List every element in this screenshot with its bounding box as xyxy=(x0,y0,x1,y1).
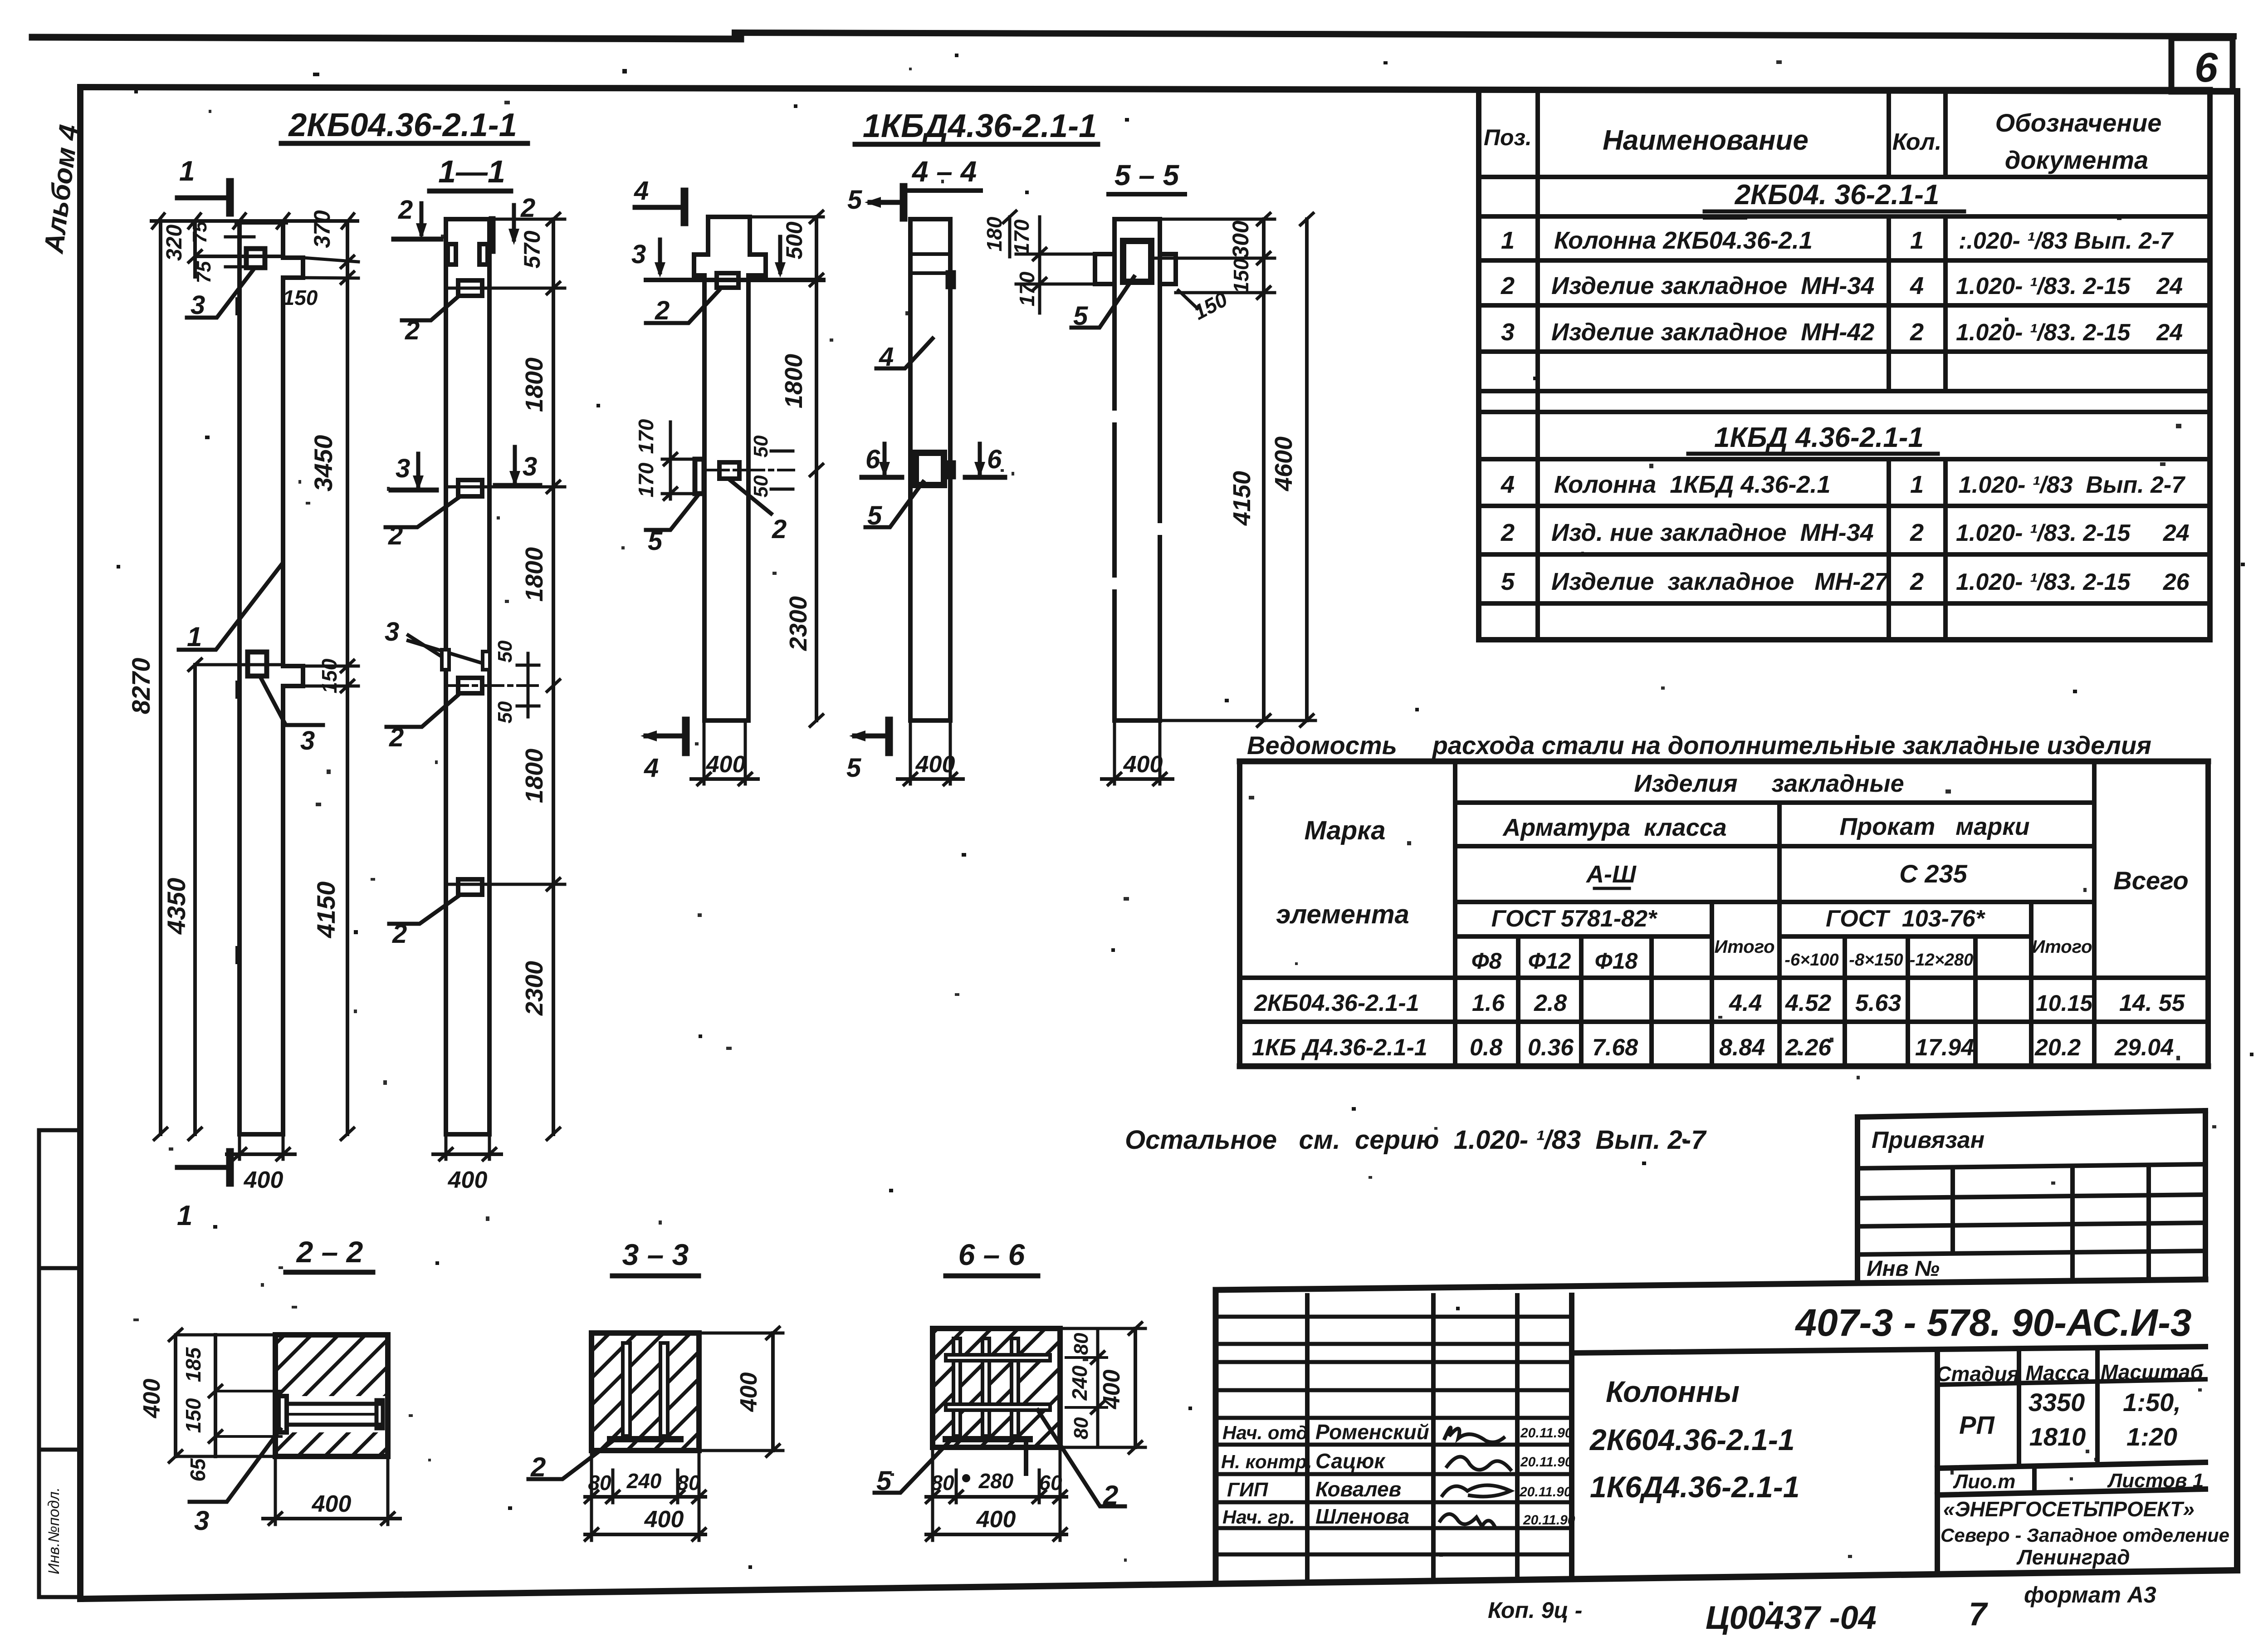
svg-text:Марка: Марка xyxy=(1304,816,1385,845)
small side plate right (mid, column 2) xyxy=(483,652,490,670)
svg-text:2: 2 xyxy=(389,723,404,752)
svg-text:-12×280: -12×280 xyxy=(1910,951,1974,970)
svg-text:ГИП: ГИП xyxy=(1227,1479,1269,1501)
svg-text:Кол.: Кол. xyxy=(1892,129,1942,155)
column 1 elevation body (Колонна 2КБ04.36-2.1) xyxy=(237,222,303,1134)
svg-text:Изделие закладное МН-42: Изделие закладное МН-42 xyxy=(1551,319,1874,346)
left binding margin boxes xyxy=(39,1130,80,1597)
svg-text:2: 2 xyxy=(1910,319,1924,346)
title block signature rows xyxy=(1216,1317,1572,1554)
right dimension line 370/150/3450/150/4150 of column 1 xyxy=(283,210,358,1140)
svg-text:Коп. 9ц -: Коп. 9ц - xyxy=(1488,1598,1582,1623)
svg-text:1800: 1800 xyxy=(521,749,548,803)
svg-text:Итого: Итого xyxy=(2032,937,2092,957)
svg-text::.020- ¹/83 Вып. 2-7: :.020- ¹/83 Вып. 2-7 xyxy=(1959,228,2174,254)
svg-text:5.63: 5.63 xyxy=(1855,990,1901,1016)
svg-text:14. 55: 14. 55 xyxy=(2119,990,2185,1016)
svg-text:1КБ Д4.36-2.1-1: 1КБ Д4.36-2.1-1 xyxy=(1252,1034,1427,1061)
column 4 section 4-4 body xyxy=(910,219,950,720)
svg-text:Ф8: Ф8 xyxy=(1471,948,1502,974)
page top rule left segment xyxy=(32,37,741,39)
svg-text:Нач. гр.: Нач. гр. xyxy=(1222,1506,1295,1528)
bottom extension lines column 5 xyxy=(1160,719,1315,722)
svg-text:С 235: С 235 xyxy=(1899,859,1967,888)
svg-text:180: 180 xyxy=(982,216,1006,251)
dimensions 180/170/170 left of column 5 head xyxy=(982,211,1095,313)
leader and label 2 (plate 2 of column 2) xyxy=(386,497,459,550)
svg-text:20.11.90: 20.11.90 xyxy=(1520,1426,1573,1441)
leader and label 3 (mid plate of column 1) xyxy=(261,678,323,755)
svg-text:4: 4 xyxy=(1910,272,1924,299)
components table top-right xyxy=(1479,90,2210,640)
svg-text:17.94: 17.94 xyxy=(1915,1034,1974,1061)
svg-text:-6×100: -6×100 xyxy=(1784,951,1838,970)
top side plate left (column 2) xyxy=(448,244,456,265)
svg-text:370: 370 xyxy=(309,210,335,248)
signature row Нач.гр Шленова xyxy=(1222,1505,1575,1528)
svg-text:3 – 3: 3 – 3 xyxy=(622,1238,689,1271)
components table row 1 xyxy=(1501,227,2174,254)
dimension line 570/1800/1800/1800/2300 (column 2) xyxy=(489,213,565,1140)
section 2-2 square with hatch xyxy=(275,1335,388,1456)
svg-text:Прокат марки: Прокат марки xyxy=(1839,813,2029,840)
svg-text:4150: 4150 xyxy=(312,882,340,939)
svg-text:2: 2 xyxy=(1501,272,1515,299)
svg-text:150: 150 xyxy=(181,1398,205,1433)
svg-text:400: 400 xyxy=(736,1372,762,1412)
svg-text:5: 5 xyxy=(1073,301,1088,331)
svg-text:2: 2 xyxy=(405,316,420,345)
svg-text:2300: 2300 xyxy=(521,961,548,1016)
dimension 320 with 75 75 at top of column 1 xyxy=(162,221,283,283)
title 2КБ04.36-2.1-1 xyxy=(281,107,528,143)
title 1КБД4.36-2.1-1 xyxy=(855,108,1098,144)
svg-text:150: 150 xyxy=(283,286,318,309)
svg-text:2КБ04.36-2.1-1: 2КБ04.36-2.1-1 xyxy=(288,107,517,143)
svg-text:Масса: Масса xyxy=(2025,1361,2089,1385)
svg-text:Листов 1: Листов 1 xyxy=(2107,1470,2204,1492)
bottom dimension 400 of column 4 xyxy=(898,720,963,785)
bottom dimension 400 of section 2-2 xyxy=(263,1456,400,1524)
svg-text:50: 50 xyxy=(494,701,516,723)
dimension 50/50 at mid plate of column 3 xyxy=(750,435,793,497)
svg-text:Колонна 1КБД 4.36-2.1: Колонна 1КБД 4.36-2.1 xyxy=(1554,471,1831,498)
svg-text:400: 400 xyxy=(312,1491,352,1517)
svg-text:29.04: 29.04 xyxy=(2114,1034,2174,1061)
vedomost table texts xyxy=(1276,770,2189,974)
svg-text:2 – 2: 2 – 2 xyxy=(296,1235,363,1269)
small plate on right edge top of column 4 xyxy=(948,272,954,287)
svg-text:элемента: элемента xyxy=(1276,900,1409,929)
section cut mark 1 (bottom of column 1) xyxy=(177,1152,230,1231)
small weld plate on left edge of column 1 (upper) xyxy=(235,297,241,315)
svg-text:5: 5 xyxy=(867,501,882,530)
svg-text:1: 1 xyxy=(1910,227,1924,254)
svg-text:50: 50 xyxy=(494,640,516,662)
section cut mark 2 (top left of column 2) xyxy=(394,195,441,240)
svg-text:170: 170 xyxy=(1010,219,1033,254)
svg-text:3350: 3350 xyxy=(2028,1388,2085,1416)
embedded plate item 2 on head of column 3 xyxy=(717,273,738,288)
dimension 170/170 (left of column 3) xyxy=(634,419,695,500)
svg-text:407-3 - 578. 90-АС.И-3: 407-3 - 578. 90-АС.И-3 xyxy=(1794,1301,2191,1344)
svg-text:Ведомость расхода стали: Ведомость расхода стали на дополнительны… xyxy=(1247,731,2151,760)
column 5 section 5-5 body with break lines xyxy=(1114,219,1160,720)
svg-text:80: 80 xyxy=(1070,1333,1092,1355)
svg-text:формат А3: формат А3 xyxy=(2024,1582,2156,1608)
svg-text:400: 400 xyxy=(139,1379,165,1419)
small weld plate on left edge of column 1 (middle) xyxy=(235,681,241,699)
top dimension line of column 1 xyxy=(152,214,357,228)
svg-text:50: 50 xyxy=(750,435,772,457)
svg-text:Итого: Итого xyxy=(1714,937,1774,957)
svg-text:1810: 1810 xyxy=(2029,1422,2086,1451)
svg-text:2: 2 xyxy=(392,919,407,949)
svg-text:400: 400 xyxy=(1099,1370,1125,1410)
left dimension 400 of section 2-2 xyxy=(139,1329,275,1462)
svg-text:1: 1 xyxy=(177,1200,192,1231)
dimension line 1800/2300 (column 3) xyxy=(780,211,823,726)
svg-text:1К6Д4.36-2.1-1: 1К6Д4.36-2.1-1 xyxy=(1590,1470,1800,1504)
dimension 8270 line (column 1 overall) xyxy=(127,221,167,1140)
item 5 plate square mid of column 4 xyxy=(916,453,944,485)
privyazan stamp box xyxy=(1857,1111,2205,1283)
svg-text:185: 185 xyxy=(181,1347,205,1382)
bottom dimension 400 of column 3 xyxy=(691,720,758,785)
svg-text:1.020- ¹/83 Вып. 2-7: 1.020- ¹/83 Вып. 2-7 xyxy=(1959,472,2185,498)
embedded plate MH-34 item 2 no.3 (mid axis) on column 2 xyxy=(458,678,482,693)
svg-text:Н. контр.: Н. контр. xyxy=(1221,1451,1312,1472)
item 5 plate square in head of column 5 xyxy=(1123,241,1151,282)
svg-text:4: 4 xyxy=(644,753,659,783)
section cut mark 3 (left of column 3 head) xyxy=(631,240,665,278)
dimension 150 diagonal note right of column 5 head xyxy=(1178,287,1232,324)
section cut mark 6 (left of column 4) xyxy=(862,444,902,477)
svg-text:2: 2 xyxy=(388,521,403,550)
svg-text:400: 400 xyxy=(644,1506,684,1533)
column 3 elevation body (Колонна 1КБД4.36-2.1) with head xyxy=(646,217,823,720)
bottom dimension 400 of column 1 xyxy=(227,1134,295,1193)
svg-text:Ковалев: Ковалев xyxy=(1315,1477,1401,1501)
signature row Н.контр Сацюк xyxy=(1221,1449,1573,1473)
svg-text:0.8: 0.8 xyxy=(1470,1034,1502,1061)
svg-text:Наименование: Наименование xyxy=(1603,125,1809,156)
svg-text:2: 2 xyxy=(1501,519,1515,546)
small side plate left (mid, column 2) xyxy=(442,650,449,670)
svg-text:Масштаб: Масштаб xyxy=(2101,1360,2204,1384)
svg-text:1: 1 xyxy=(179,156,195,187)
title 5-5 xyxy=(1109,159,1185,194)
embedded plate item 2 mid of column 3 xyxy=(719,462,739,479)
extension line plate4 to dim line xyxy=(447,883,565,886)
svg-text:7.68: 7.68 xyxy=(1592,1034,1638,1061)
svg-text:Ф12: Ф12 xyxy=(1528,948,1571,974)
section cut mark 4 (bottom of column 3) xyxy=(640,720,686,783)
svg-text:Колонны: Колонны xyxy=(1606,1375,1740,1408)
signature row ГИП Ковалев xyxy=(1227,1477,1572,1501)
svg-text:1.6: 1.6 xyxy=(1472,990,1505,1016)
vedomost data row 1 xyxy=(1254,990,2185,1016)
svg-text:1.020- ¹/83. 2-15 24: 1.020- ¹/83. 2-15 24 xyxy=(1956,520,2190,546)
svg-text:1800: 1800 xyxy=(521,547,548,602)
svg-text:5: 5 xyxy=(876,1465,892,1496)
svg-text:Ленинград: Ленинград xyxy=(2016,1545,2130,1569)
leader and label 3 (section 2-2 plate) xyxy=(190,1429,280,1536)
svg-text:170: 170 xyxy=(634,419,658,454)
svg-text:Поз.: Поз. xyxy=(1484,125,1532,150)
svg-text:1:50,: 1:50, xyxy=(2123,1388,2181,1416)
svg-text:1: 1 xyxy=(187,622,202,652)
column 5 head right arm xyxy=(1160,254,1176,284)
svg-text:8270: 8270 xyxy=(127,658,155,715)
svg-text:Обозначение: Обозначение xyxy=(1995,108,2162,137)
svg-text:80: 80 xyxy=(1070,1417,1092,1439)
leader and label 5 (left plate of column 3) xyxy=(646,495,699,556)
svg-text:0.36: 0.36 xyxy=(1528,1034,1574,1061)
svg-text:1: 1 xyxy=(1501,227,1515,254)
svg-text:2КБ04. 36-2.1-1: 2КБ04. 36-2.1-1 xyxy=(1735,179,1940,211)
svg-text:Арматура класса: Арматура класса xyxy=(1502,814,1726,841)
svg-text:5: 5 xyxy=(1501,568,1515,595)
components table header texts xyxy=(1484,108,2161,174)
svg-text:400: 400 xyxy=(448,1167,488,1193)
svg-text:3: 3 xyxy=(194,1505,209,1536)
svg-text:1КБД 4.36-2.1-1: 1КБД 4.36-2.1-1 xyxy=(1714,422,1924,453)
svg-text:РП: РП xyxy=(1959,1411,1995,1439)
section cut mark 3 (right of column 3 head) xyxy=(775,237,786,278)
small weld plate on left edge of column 1 (lower) xyxy=(235,946,241,964)
anchor bars in section 3-3 xyxy=(610,1343,680,1439)
svg-text:Колонна 2КБ04.36-2.1: Колонна 2КБ04.36-2.1 xyxy=(1554,227,1813,254)
svg-text:500: 500 xyxy=(782,221,807,260)
svg-text:ГОСТ 5781-82*: ГОСТ 5781-82* xyxy=(1491,906,1658,932)
signature row Нач.отд Роменский xyxy=(1222,1420,1573,1444)
anchor bars grid in section 6-6 xyxy=(946,1338,1050,1474)
svg-text:1.020- ¹/83. 2-15 24: 1.020- ¹/83. 2-15 24 xyxy=(1956,273,2183,299)
embedded plate MH-34 item 2 no.4 on column 2 xyxy=(458,879,482,895)
svg-text:Изделие закладное МН-27: Изделие закладное МН-27 xyxy=(1551,568,1889,595)
svg-text:4150: 4150 xyxy=(1228,471,1256,526)
components table row 6 xyxy=(1501,568,2190,595)
stage РП mass 3350/1810 scale 1:50 1:20 xyxy=(1959,1388,2181,1451)
components table subtitle 2КБ04.36-2.1-1 xyxy=(1705,179,1964,218)
svg-text:1.020- ¹/83. 2-15 26: 1.020- ¹/83. 2-15 26 xyxy=(1956,569,2190,595)
section cut mark 3 (left, at plate 2 level) xyxy=(391,454,436,491)
svg-text:3: 3 xyxy=(191,290,205,320)
svg-text:-8×150: -8×150 xyxy=(1849,951,1903,970)
svg-text:2: 2 xyxy=(1103,1480,1118,1510)
leader and label 2 (plate 4 of column 2) xyxy=(389,896,459,949)
svg-text:150: 150 xyxy=(318,658,341,693)
leader and label 5 (head plate of column 5) xyxy=(1071,277,1134,331)
svg-text:20.11.90: 20.11.90 xyxy=(1519,1485,1572,1500)
svg-text:Роменский: Роменский xyxy=(1315,1420,1429,1444)
extension line plate2 to dim line xyxy=(447,485,565,489)
privyazan texts xyxy=(1867,1127,1984,1281)
svg-text:2: 2 xyxy=(1910,519,1924,546)
leader and label 5 (section 6-6 plate) xyxy=(875,1442,949,1496)
bottom dimension 400 of column 2 xyxy=(433,1134,501,1193)
column 2 section 1-1 body xyxy=(446,219,489,1134)
svg-text:5: 5 xyxy=(847,185,862,215)
embedded plate MH-34 item 2 no.1 on column 2 xyxy=(458,280,482,296)
svg-text:1:20: 1:20 xyxy=(2126,1422,2177,1451)
leader and label 5 (mid square of column 4) xyxy=(865,482,923,530)
section cut mark 6 (right of column 4) xyxy=(965,444,1005,477)
page top rule right segment xyxy=(735,33,2234,36)
leader and label 2 (section 6-6 bars) xyxy=(1038,1410,1125,1510)
dimension 4350 line (column 1 lower part) xyxy=(162,659,281,1140)
dimension line 300/150/4150 (column 5) xyxy=(1151,213,1275,726)
sheet number box top-right xyxy=(2171,38,2233,92)
svg-text:2300: 2300 xyxy=(785,596,812,651)
dash-dot axis through mid plate of column 3 xyxy=(708,469,794,471)
svg-text:6: 6 xyxy=(865,445,880,474)
svg-text:20.11.90: 20.11.90 xyxy=(1520,1455,1573,1470)
svg-text:Ц00437 -04: Ц00437 -04 xyxy=(1706,1600,1877,1635)
section cut mark 1 (top of column 1) xyxy=(177,156,230,213)
title 6-6 xyxy=(946,1238,1038,1276)
svg-text:6: 6 xyxy=(2195,44,2218,91)
svg-text:3: 3 xyxy=(300,726,315,755)
column 5 head left arm xyxy=(1095,254,1114,284)
object name cell Колонны xyxy=(1589,1375,1800,1504)
components table row 4 xyxy=(1501,471,2185,498)
svg-text:320: 320 xyxy=(162,225,186,261)
svg-text:Шленова: Шленова xyxy=(1315,1505,1409,1528)
svg-text:4350: 4350 xyxy=(162,878,191,935)
svg-text:1: 1 xyxy=(1910,471,1924,498)
svg-text:4: 4 xyxy=(1501,471,1515,498)
svg-text:1.020- ¹/83. 2-15 24: 1.020- ¹/83. 2-15 24 xyxy=(1956,319,2183,346)
leader and label 3 (top plate of column 1) xyxy=(187,270,253,320)
svg-text:2.8: 2.8 xyxy=(1534,990,1567,1016)
sheet row Лист Листов xyxy=(1953,1470,2204,1493)
organization ЭНЕРГОСЕТЬПРОЕКТ xyxy=(1941,1497,2229,1569)
components table subtitle 1КБД4.36-2.1-1 xyxy=(1688,422,1938,454)
svg-text:2: 2 xyxy=(655,296,670,325)
svg-text:75: 75 xyxy=(189,221,211,243)
svg-text:75: 75 xyxy=(193,261,215,283)
svg-text:150: 150 xyxy=(1229,258,1253,293)
svg-text:5: 5 xyxy=(846,753,861,783)
title 3-3 xyxy=(612,1238,699,1276)
svg-text:А-Ш: А-Ш xyxy=(1585,861,1637,888)
leader and label 2 (plate 1 of column 2) xyxy=(402,296,459,345)
svg-text:4: 4 xyxy=(879,342,894,372)
bottom dimensions 80/240/80 and 400 of section 3-3 xyxy=(585,1451,705,1540)
dash-dot axis through mid plate xyxy=(447,684,538,687)
svg-text:4: 4 xyxy=(634,176,649,206)
svg-text:300: 300 xyxy=(1228,221,1253,259)
bottom dimension 400 of column 5 xyxy=(1102,720,1173,785)
svg-text:2: 2 xyxy=(530,1452,546,1482)
svg-text:Инв №: Инв № xyxy=(1867,1257,1940,1281)
svg-text:4.4: 4.4 xyxy=(1729,990,1762,1016)
svg-text:400: 400 xyxy=(244,1167,283,1193)
leader and label 2 (head plate of column 3) xyxy=(646,290,719,325)
embedded plate MH-34 item 2 no.2 on column 2 xyxy=(458,480,482,496)
right dimensions 80/240/80 and 400 of section 6-6 xyxy=(1060,1323,1145,1453)
top side plate right (column 2) xyxy=(479,244,488,265)
svg-text:5: 5 xyxy=(648,526,663,556)
svg-text:ГОСТ 103-76*: ГОСТ 103-76* xyxy=(1826,906,1986,932)
section cut mark 4 (top of column 3) xyxy=(634,176,684,222)
bottom dimensions 80/280/60 and 400 of section 6-6 xyxy=(926,1447,1066,1540)
leader and label 2 (mid plate of column 3) xyxy=(729,480,787,544)
title block outline xyxy=(1216,1279,2205,1583)
svg-text:Всего: Всего xyxy=(2113,866,2188,895)
svg-text:Инв.№подл.: Инв.№подл. xyxy=(45,1487,63,1574)
svg-text:8.84: 8.84 xyxy=(1719,1034,1765,1061)
stage mass scale header xyxy=(1936,1360,2204,1386)
svg-text:3: 3 xyxy=(523,452,537,481)
components table row 2 xyxy=(1501,272,2183,299)
svg-text:Северо - Западное отделение: Северо - Западное отделение xyxy=(1941,1524,2229,1546)
leader and label 2 (section 3-3 plate) xyxy=(528,1441,613,1482)
svg-text:6 – 6: 6 – 6 xyxy=(958,1238,1026,1271)
svg-text:3450: 3450 xyxy=(309,435,337,492)
label 3 with two leaders (mid small plates of column 2) xyxy=(385,617,480,662)
title 4-4 xyxy=(907,155,981,191)
svg-text:170: 170 xyxy=(634,462,658,497)
svg-text:5 – 5: 5 – 5 xyxy=(1114,159,1180,191)
svg-text:6: 6 xyxy=(987,445,1002,474)
svg-text:Изд. ние закладное МН-34: Изд. ние закладное МН-34 xyxy=(1551,519,1874,546)
section cut mark 2 (top right of column 2) xyxy=(492,193,535,250)
svg-text:1КБД4.36-2.1-1: 1КБД4.36-2.1-1 xyxy=(863,108,1097,144)
svg-text:Лио.т: Лио.т xyxy=(1953,1470,2015,1493)
dimension 185/150/65 of section 2-2 xyxy=(181,1335,281,1482)
svg-text:80: 80 xyxy=(677,1471,700,1495)
svg-text:Привязан: Привязан xyxy=(1872,1127,1984,1153)
svg-text:170: 170 xyxy=(1015,271,1039,306)
svg-text:2К604.36-2.1-1: 2К604.36-2.1-1 xyxy=(1589,1423,1795,1456)
svg-text:400: 400 xyxy=(1123,751,1163,778)
vedomost steel table xyxy=(1240,761,2208,1066)
svg-text:Сацюк: Сацюк xyxy=(1315,1449,1386,1473)
svg-text:1800: 1800 xyxy=(780,354,807,408)
components table row 3 xyxy=(1501,319,2183,346)
svg-text:3: 3 xyxy=(1501,319,1515,346)
svg-text:7: 7 xyxy=(1969,1596,1988,1632)
svg-text:1—1: 1—1 xyxy=(438,154,505,189)
svg-text:20.11.90: 20.11.90 xyxy=(1523,1513,1575,1528)
svg-text:65: 65 xyxy=(186,1458,210,1482)
embedded plate item 3 in section 2-2 xyxy=(279,1396,383,1432)
svg-text:80: 80 xyxy=(588,1471,611,1495)
section 6-6 square with hatch xyxy=(933,1328,1060,1447)
small plate on right edge mid of column 4 xyxy=(948,462,954,477)
extension line plate1 to dim line xyxy=(447,287,565,290)
svg-text:Изделие закладное МН-34: Изделие закладное МН-34 xyxy=(1551,272,1874,299)
leader and label 4 (column 4 body) xyxy=(876,338,933,372)
svg-text:80: 80 xyxy=(931,1471,954,1495)
components table row 5 xyxy=(1501,519,2190,546)
title 1-1 xyxy=(430,154,511,191)
dimension 500 (head height of column 3, on main dim line) xyxy=(750,217,823,260)
section cut mark 5 (bottom of column 4) xyxy=(846,720,889,783)
dimension line 4600 (column 5 overall) xyxy=(1270,213,1313,726)
section cut mark 3 (right, at plate 2 level) xyxy=(495,447,540,486)
svg-text:Стадия: Стадия xyxy=(1936,1362,2019,1386)
section 3-3 square with hatch xyxy=(591,1333,699,1451)
svg-text:400: 400 xyxy=(706,751,746,778)
svg-text:документа: документа xyxy=(2005,146,2148,174)
svg-text:3: 3 xyxy=(385,617,399,647)
svg-text:2.26: 2.26 xyxy=(1785,1034,1832,1061)
svg-text:1800: 1800 xyxy=(521,358,548,412)
